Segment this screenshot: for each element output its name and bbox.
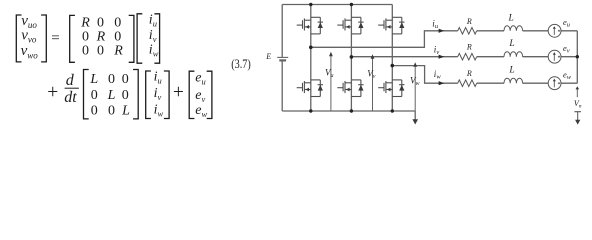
svg-text:0: 0 xyxy=(82,43,89,58)
phase w wire right of source xyxy=(561,82,577,84)
transistor Q5 (upper w) xyxy=(378,17,404,34)
svg-text:d: d xyxy=(66,72,75,89)
svg-text:0: 0 xyxy=(82,29,89,44)
svg-text:0: 0 xyxy=(97,43,104,58)
junction top rail leg2 xyxy=(350,3,353,6)
current vector 1 brackets xyxy=(137,14,160,63)
transistor Q1 (upper u) xyxy=(297,17,323,34)
inductor L phase u xyxy=(504,26,523,31)
svg-text:=: = xyxy=(51,31,59,47)
current arrow i_w xyxy=(439,81,445,85)
junction bottom rail leg3 xyxy=(391,109,394,112)
emf source e_v circle xyxy=(548,50,561,63)
svg-text:Vn: Vn xyxy=(574,99,582,110)
svg-text:L: L xyxy=(107,88,116,103)
svg-text:iv: iv xyxy=(434,44,440,56)
bottom dc rail xyxy=(282,110,415,112)
svg-text:eu: eu xyxy=(563,17,571,29)
svg-text:Vw: Vw xyxy=(410,75,420,87)
svg-text:Vu: Vu xyxy=(325,68,334,80)
emf source e_u circle xyxy=(548,24,561,37)
svg-text:iu: iu xyxy=(432,18,439,30)
left dc wire lower xyxy=(281,60,283,111)
voltage arrow V_v xyxy=(371,54,375,111)
junction top rail leg1 xyxy=(309,3,312,6)
svg-text:eu: eu xyxy=(195,71,205,87)
voltage arrow V_w xyxy=(413,62,417,111)
current arrow i_v xyxy=(439,55,445,59)
phase u wire xyxy=(311,31,549,48)
neutral bus wire xyxy=(576,31,578,83)
left dc wire upper xyxy=(281,5,283,58)
svg-text:+: + xyxy=(47,82,58,103)
svg-text:Vv: Vv xyxy=(367,68,376,80)
voltage arrow V_u xyxy=(329,52,333,111)
svg-text:0: 0 xyxy=(122,88,129,103)
junction bottom rail leg2 xyxy=(350,109,353,112)
svg-text:R: R xyxy=(466,17,472,26)
inductor L phase v xyxy=(504,52,523,57)
leg 2 wire xyxy=(350,5,352,112)
svg-text:iv: iv xyxy=(154,86,162,102)
transistor Q3 (upper v) xyxy=(337,17,363,34)
transistor Q6 (lower w) xyxy=(378,80,404,97)
phase v wire right of source xyxy=(561,56,577,58)
svg-text:R: R xyxy=(96,29,106,44)
transistor Q2 (lower u) xyxy=(297,80,323,97)
junction phase u tap xyxy=(309,46,313,50)
resistor R phase w xyxy=(458,80,477,87)
top dc rail xyxy=(282,4,392,6)
svg-text:0: 0 xyxy=(114,15,121,30)
ground symbol right xyxy=(574,112,581,125)
svg-text:ew: ew xyxy=(195,103,207,119)
svg-text:iw: iw xyxy=(149,43,159,59)
current arrow i_u xyxy=(439,29,445,33)
svg-text:R: R xyxy=(466,69,472,78)
svg-text:L: L xyxy=(508,14,514,24)
emf vector brackets xyxy=(189,71,212,118)
svg-text:dt: dt xyxy=(64,89,77,106)
svg-text:R: R xyxy=(466,43,472,52)
svg-text:ev: ev xyxy=(563,43,570,55)
junction phase w tap xyxy=(391,64,395,68)
svg-text:0: 0 xyxy=(108,72,115,87)
leg 3 wire xyxy=(391,5,393,112)
svg-text:0: 0 xyxy=(91,88,98,103)
current vector 2 brackets xyxy=(146,71,169,119)
svg-text:L: L xyxy=(508,65,514,75)
vector [v_uo v_vo v_wo] brackets xyxy=(16,15,46,62)
neutral voltage arrow V_n xyxy=(576,86,580,97)
emf source e_w circle xyxy=(548,77,561,90)
svg-text:iu: iu xyxy=(154,70,162,86)
resistor R phase u xyxy=(458,27,477,34)
transistor Q4 (lower v) xyxy=(337,80,363,97)
phase u wire right of source xyxy=(561,30,577,32)
battery long plate xyxy=(277,56,288,58)
svg-text:0: 0 xyxy=(122,72,129,87)
junction phase v tap xyxy=(350,55,354,59)
svg-text:R: R xyxy=(113,43,123,58)
junction bottom rail leg1 xyxy=(309,109,312,112)
R matrix brackets xyxy=(70,15,134,62)
phase v wire xyxy=(351,56,548,58)
svg-text:L: L xyxy=(89,72,98,87)
phase w wire xyxy=(392,66,548,84)
svg-text:E: E xyxy=(265,52,271,61)
svg-text:0: 0 xyxy=(91,104,98,119)
svg-text:L: L xyxy=(508,39,514,49)
svg-text:0: 0 xyxy=(114,29,121,44)
leg 1 wire xyxy=(310,5,312,112)
svg-text:iu: iu xyxy=(149,12,157,28)
svg-text:(3.7): (3.7) xyxy=(231,57,251,71)
svg-text:iw: iw xyxy=(434,69,442,81)
svg-text:+: + xyxy=(173,82,184,103)
svg-text:vwo: vwo xyxy=(21,43,39,60)
inductor L phase w xyxy=(504,78,523,83)
svg-text:L: L xyxy=(121,104,130,119)
ground arrow below bridge xyxy=(412,111,418,125)
resistor R phase v xyxy=(458,53,477,60)
svg-text:ew: ew xyxy=(563,69,572,81)
junction neutral bus xyxy=(576,55,579,58)
L matrix brackets xyxy=(84,70,139,119)
svg-text:0: 0 xyxy=(108,104,115,119)
svg-text:ev: ev xyxy=(195,88,205,104)
svg-text:0: 0 xyxy=(97,15,104,30)
svg-text:iw: iw xyxy=(154,102,164,118)
svg-text:R: R xyxy=(80,15,90,30)
battery short plate xyxy=(279,59,286,61)
